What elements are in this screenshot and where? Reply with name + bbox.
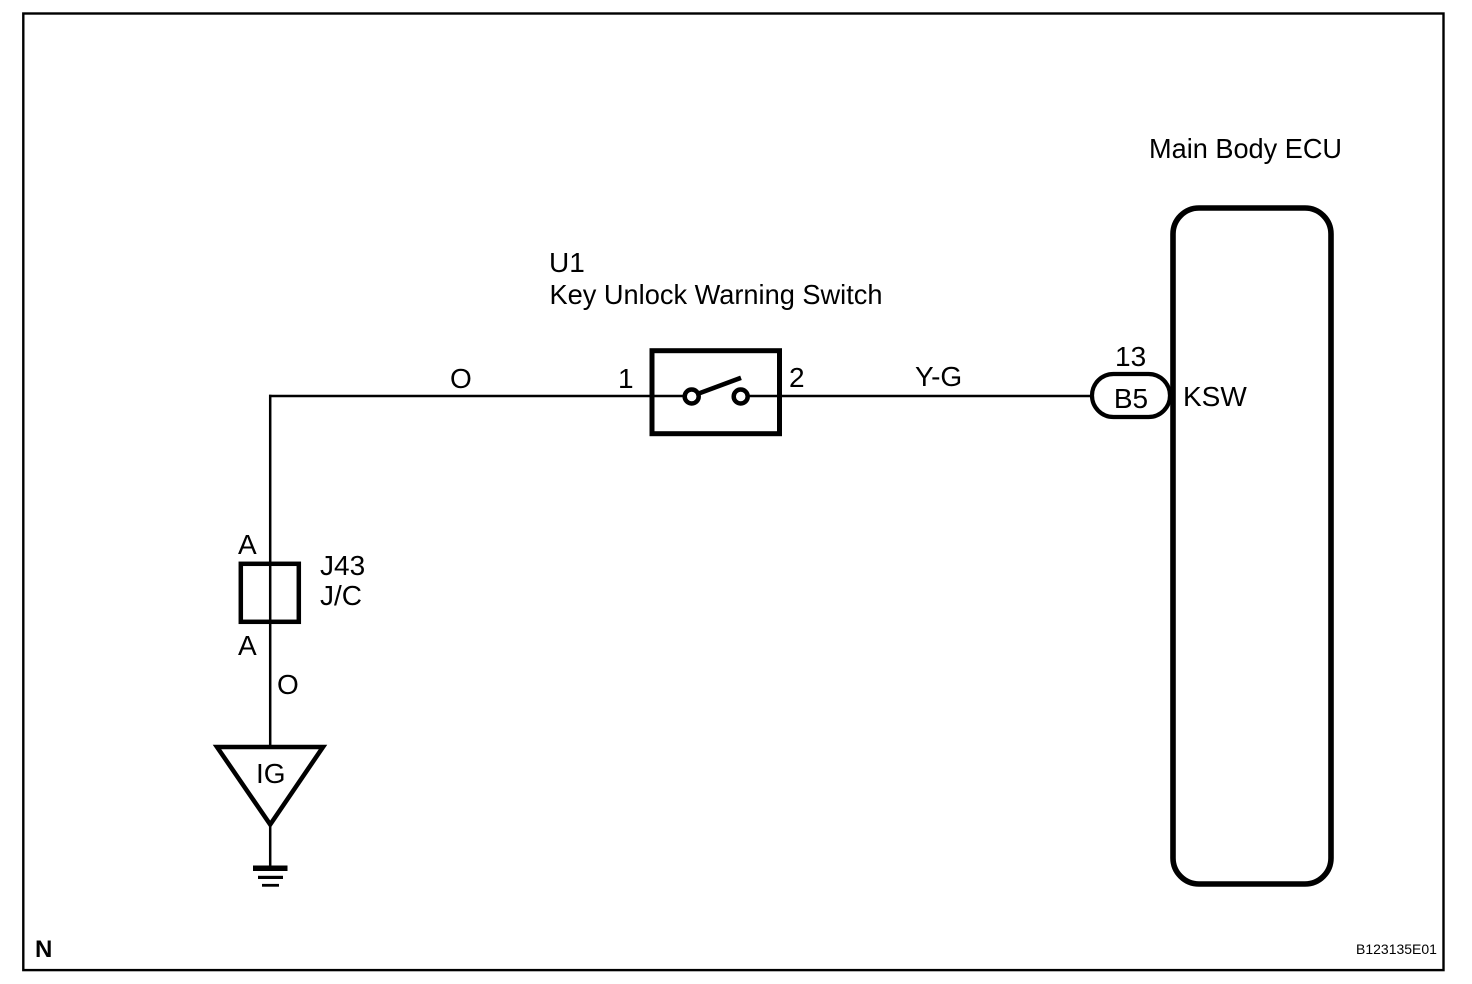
switch U1 contact pin 2 — [734, 390, 748, 404]
junction connector J43 box — [241, 564, 299, 622]
switch U1 contact pin 1 — [685, 390, 699, 404]
connector B5 oval — [1092, 374, 1170, 417]
svg-text:U1: U1 — [549, 247, 585, 278]
wire: from IG fuse apex to ground — [269, 826, 272, 866]
svg-text:A: A — [238, 630, 257, 661]
wire: O wire from node A corner to switch pin 1 — [269, 395, 692, 398]
svg-text:J/C: J/C — [320, 580, 362, 611]
svg-text:Y-G: Y-G — [915, 361, 962, 392]
svg-text:IG: IG — [256, 758, 286, 789]
svg-text:O: O — [450, 363, 472, 394]
ECU block Main Body ECU — [1173, 208, 1331, 884]
svg-text:B123135E01: B123135E01 — [1356, 941, 1437, 957]
wire: Y-G wire from switch pin 2 to ECU connector B5 — [740, 395, 1094, 398]
switch U1 box — [652, 351, 780, 434]
switch U1 blade — [696, 378, 741, 395]
svg-text:J43: J43 — [320, 550, 365, 581]
svg-text:1: 1 — [618, 363, 634, 394]
svg-text:N: N — [35, 936, 52, 963]
svg-text:O: O — [277, 669, 299, 700]
svg-text:Main Body ECU: Main Body ECU — [1149, 133, 1342, 164]
svg-text:Key Unlock Warning Switch: Key Unlock Warning Switch — [550, 279, 883, 310]
svg-text:B5: B5 — [1114, 383, 1148, 414]
wire: vertical wire from O wire down through J43 to IG — [269, 395, 272, 746]
svg-text:2: 2 — [789, 362, 805, 393]
svg-text:KSW: KSW — [1183, 381, 1247, 412]
ground bar 2 — [258, 876, 283, 879]
ground bar 3 — [262, 884, 279, 887]
svg-text:A: A — [238, 529, 257, 560]
fuse IG triangle — [217, 747, 323, 825]
svg-text:13: 13 — [1115, 341, 1146, 372]
ground bar 1 — [253, 866, 288, 872]
